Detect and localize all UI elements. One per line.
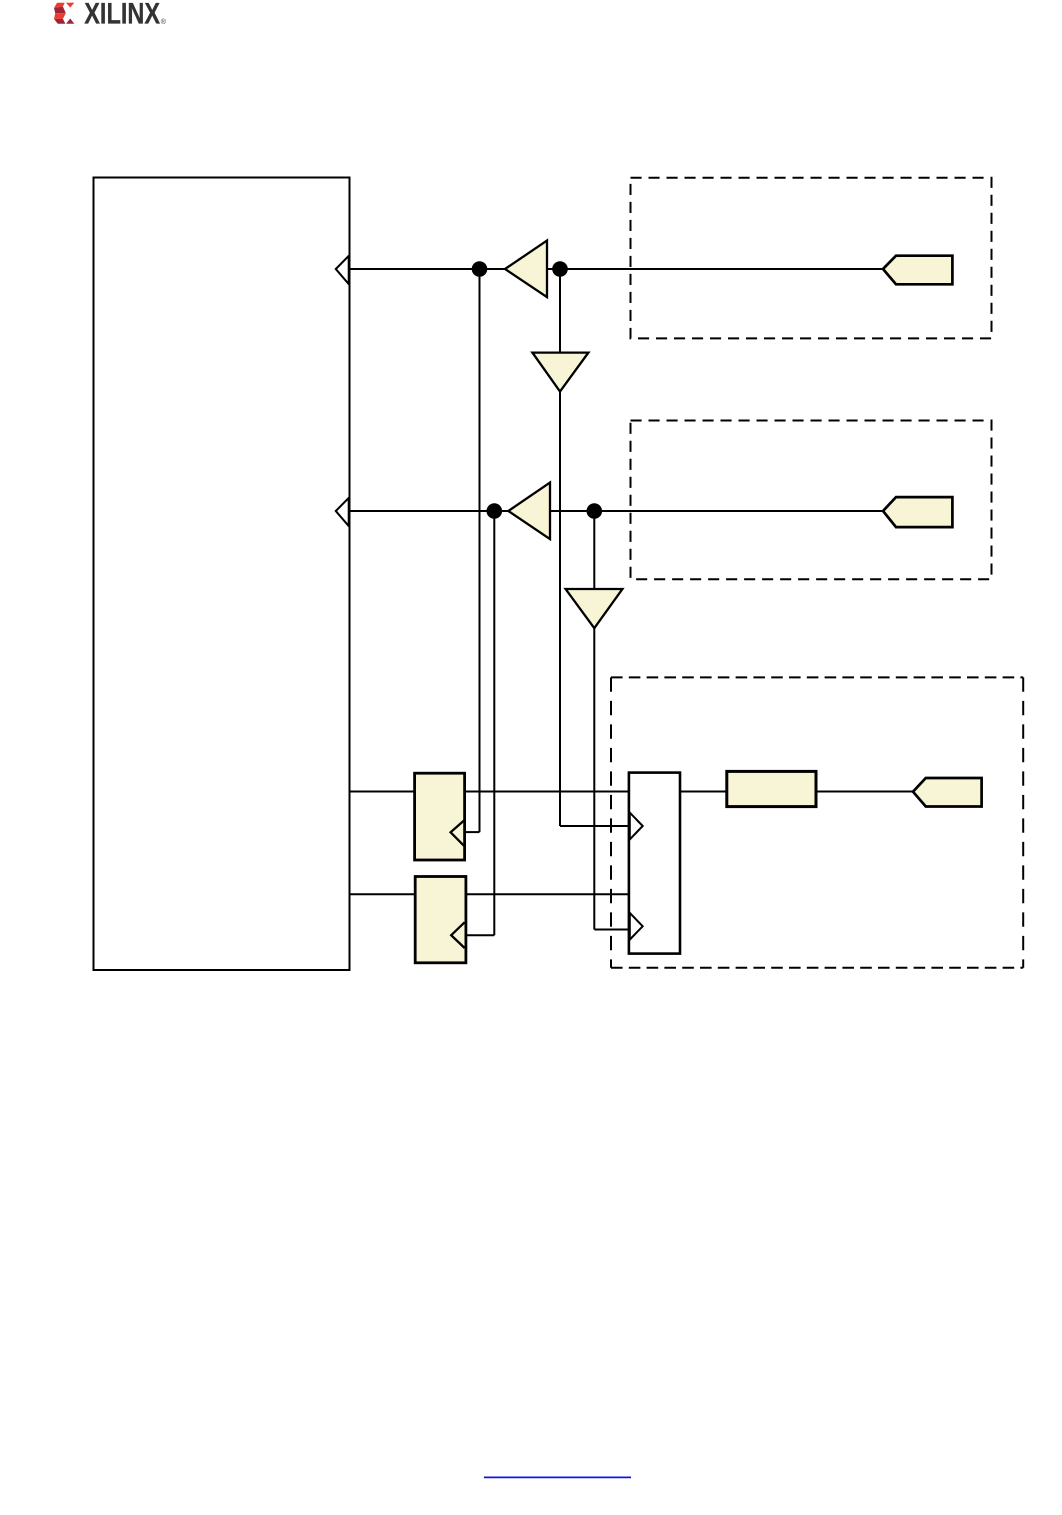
svg-text:®: ®: [161, 18, 167, 26]
svg-text:XILINX: XILINX: [84, 0, 160, 31]
